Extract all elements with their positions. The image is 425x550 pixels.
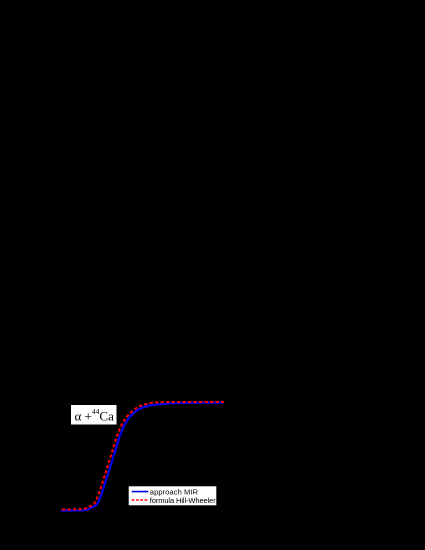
reaction label box	[71, 405, 118, 426]
legend box	[128, 486, 217, 506]
legend blue sample	[132, 491, 149, 493]
legend red sample	[132, 499, 149, 501]
blue curve: approach MIR	[61, 403, 223, 511]
svg-text:formula Hill-Wheeler: formula Hill-Wheeler	[150, 496, 216, 505]
red dashed curve: formula Hill-Wheeler	[62, 402, 224, 510]
